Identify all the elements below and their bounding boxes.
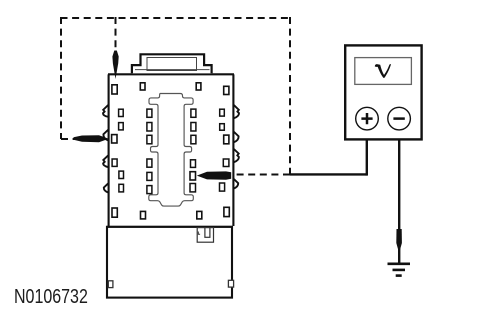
connector C1 bottom-left index square	[108, 281, 113, 288]
pin D2	[147, 123, 152, 132]
pin A2	[140, 83, 145, 90]
connector C1 lock tab detail	[197, 228, 213, 243]
pin F1	[112, 159, 117, 166]
side lock tab left 4	[104, 183, 109, 192]
pin B1	[119, 109, 124, 116]
wire: dashed stub to right probe	[236, 174, 290, 176]
voltmeter V1 body	[345, 45, 421, 139]
pin E2	[191, 123, 196, 132]
wire: solid horizontal to voltmeter positive lead	[290, 173, 367, 175]
connector C1 latch outer	[132, 54, 212, 73]
probe arrow into top pin	[112, 51, 118, 80]
wire: ground lead stub	[398, 248, 400, 264]
pin E5 (right probed pin)	[190, 172, 196, 180]
pin F5	[220, 183, 225, 191]
pin D4	[147, 159, 152, 167]
connector C1 bottom-right index square	[228, 280, 233, 287]
wire: dashed right vertical run	[289, 17, 291, 175]
pin C1 (left probed pin)	[112, 135, 117, 143]
pin B4	[220, 124, 225, 131]
pin D6	[147, 186, 152, 194]
side lock tab left 2	[103, 130, 108, 141]
side lock tab left 3	[103, 155, 108, 167]
voltmeter V1 display window	[355, 58, 412, 85]
pin A4	[224, 86, 229, 94]
side lock tab right 2	[234, 132, 239, 143]
ground arrow probe	[396, 229, 402, 253]
connector C1 lower shell	[107, 227, 232, 298]
wire: voltmeter positive lead vertical	[366, 128, 368, 175]
pin D3	[147, 135, 152, 144]
side lock tab left 1	[103, 105, 108, 117]
side lock tab right 3	[234, 149, 239, 163]
pin E1	[191, 109, 196, 117]
wire: dashed stub to left probe	[61, 138, 75, 140]
voltmeter V1 positive terminal	[356, 107, 379, 130]
connector C1 pin-area divider	[107, 226, 232, 228]
pin A3	[196, 83, 201, 90]
pin G3	[197, 211, 202, 219]
pin D5	[147, 172, 152, 180]
pin E4	[191, 160, 196, 168]
pin G2	[141, 211, 146, 219]
probe arrow into left pin	[74, 135, 109, 142]
keyway slot outline	[149, 94, 194, 207]
pin F3	[119, 171, 124, 178]
side lock tab right 1	[234, 105, 239, 119]
pin F2	[223, 159, 229, 167]
voltmeter V1 display letter V (greek nu glyph)	[375, 64, 391, 78]
pin G1	[112, 208, 117, 217]
connector C1 latch inner detail	[135, 58, 210, 71]
probe arrow into right pin	[197, 171, 231, 179]
pin A1	[112, 85, 117, 94]
pin E3	[191, 135, 196, 144]
pin C2 (right outer mid)	[224, 135, 229, 144]
figure number label N0106732	[14, 286, 88, 309]
wire: dashed top horizontal run	[61, 17, 291, 19]
side lock tab right 4	[234, 179, 239, 189]
pin G4	[224, 207, 229, 216]
connector C1 pin housing outline	[108, 74, 234, 226]
voltmeter V1 negative terminal	[388, 107, 411, 130]
ground symbol	[388, 264, 411, 276]
wire: dashed left vertical run	[60, 17, 62, 139]
pin B3	[220, 109, 225, 116]
pin F4	[119, 184, 124, 192]
wire: voltmeter negative lead vertical	[398, 128, 400, 230]
pin B2	[119, 123, 124, 130]
pin E6	[190, 184, 196, 192]
wire: dashed mid vertical to top probe	[115, 17, 117, 52]
pin D1	[147, 109, 152, 117]
